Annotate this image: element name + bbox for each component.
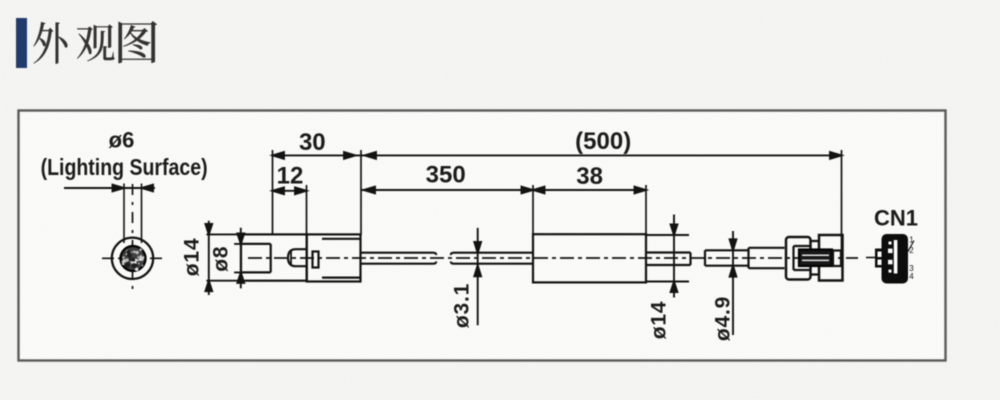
- cn1 body: [882, 234, 909, 284]
- arrows 350: [364, 187, 534, 194]
- dim 30/500 line: [273, 154, 842, 156]
- title glyph 外: [33, 22, 67, 64]
- connector block2: [819, 235, 843, 281]
- dim o4.9: [732, 231, 734, 335]
- title bar: [16, 18, 27, 68]
- connector neck: [811, 241, 820, 275]
- circle centerline horizontal: [102, 257, 164, 259]
- cable1 seg b: [451, 253, 533, 264]
- small inner rect block2: [833, 251, 841, 267]
- circle centerline vertical: [132, 184, 134, 291]
- bullet chord: [290, 251, 292, 265]
- dim o14 #1: [206, 221, 241, 295]
- title glyph 观: [77, 24, 115, 61]
- cn1 left tabs: [875, 249, 883, 268]
- dim 12 line: [273, 190, 307, 192]
- cable1 seg a: [361, 253, 437, 264]
- arrows 38: [533, 187, 646, 194]
- arrows 12: [273, 187, 307, 194]
- cn1 centerline stub: [866, 257, 878, 259]
- head barrel outer: [241, 234, 307, 280]
- main centerline: [248, 257, 858, 259]
- fiber bundle disk: [121, 246, 146, 271]
- head rear block: [307, 234, 361, 281]
- drawing frame: [19, 111, 946, 361]
- cable C seg2: [749, 248, 785, 268]
- connector block1 inner: [794, 246, 811, 270]
- head inner lines: [241, 244, 271, 273]
- dim o6: [64, 187, 155, 189]
- mid cylinder: [533, 234, 646, 282]
- cn1 leader line: [908, 241, 914, 252]
- cn1 pin numbers: [909, 236, 914, 282]
- screw bullet: [288, 249, 306, 266]
- dim o8: [234, 228, 241, 289]
- cn1 white pins: [889, 242, 892, 245]
- title glyph 图: [118, 21, 157, 63]
- cable B: [646, 253, 691, 266]
- connector block1: [786, 237, 811, 280]
- small bracket: [313, 252, 319, 268]
- dim o14 #2: [646, 215, 689, 298]
- arrows 500: [365, 152, 842, 159]
- dim 350/38 line: [361, 189, 646, 191]
- latch dark bar: [799, 250, 832, 267]
- fiber speckle: [122, 248, 145, 271]
- dim o3.1: [477, 228, 479, 325]
- arrows 30: [273, 152, 356, 159]
- cable C seg1: [705, 250, 749, 265]
- cn1 white slot: [894, 240, 898, 274]
- rear block inner lines: [322, 239, 361, 278]
- extension verticals: [273, 150, 842, 250]
- outer circle: [112, 238, 153, 279]
